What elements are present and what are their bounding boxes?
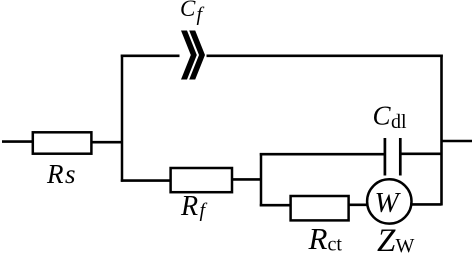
wire node B to Cdl bbox=[260, 153, 385, 156]
Warburg element W (circle) bbox=[367, 179, 411, 223]
wire top rail left bbox=[121, 54, 180, 57]
wire node B to Rct bbox=[260, 204, 291, 207]
capacitor Cdl right plate bbox=[399, 138, 402, 176]
resistor Rs bbox=[33, 132, 92, 153]
left terminal wire bbox=[2, 140, 33, 143]
node A vertical wire bbox=[121, 55, 124, 182]
svg-text:ct: ct bbox=[328, 234, 343, 256]
node B vertical wire bbox=[260, 153, 263, 206]
wire Rs to node A bbox=[91, 141, 123, 144]
right terminal wire bbox=[442, 140, 473, 143]
svg-text:f: f bbox=[200, 200, 208, 222]
svg-text:dl: dl bbox=[391, 111, 407, 133]
svg-text:f: f bbox=[197, 4, 205, 26]
svg-text:W: W bbox=[375, 187, 402, 219]
wire Cdl to right vertical bbox=[402, 153, 442, 156]
resistor Rf bbox=[171, 168, 232, 192]
wire Rf to node B bbox=[232, 178, 262, 181]
capacitor Cf (CPE chevrons) bbox=[181, 31, 205, 80]
wire top rail right bbox=[207, 54, 443, 57]
svg-text:R: R bbox=[308, 221, 328, 256]
resistor Rct bbox=[291, 196, 349, 220]
svg-text:R: R bbox=[180, 191, 198, 222]
capacitor Cdl left plate bbox=[384, 138, 387, 176]
wire node A to Rf bbox=[121, 179, 171, 182]
svg-text:s: s bbox=[65, 159, 76, 189]
wire W to right vertical bbox=[411, 203, 442, 206]
svg-text:W: W bbox=[396, 235, 415, 257]
svg-text:Z: Z bbox=[377, 223, 396, 257]
svg-text:R: R bbox=[46, 159, 64, 189]
right vertical wire bbox=[440, 55, 443, 206]
svg-text:C: C bbox=[373, 101, 392, 131]
svg-text:C: C bbox=[180, 0, 196, 21]
wire Rct to W bbox=[349, 204, 368, 207]
